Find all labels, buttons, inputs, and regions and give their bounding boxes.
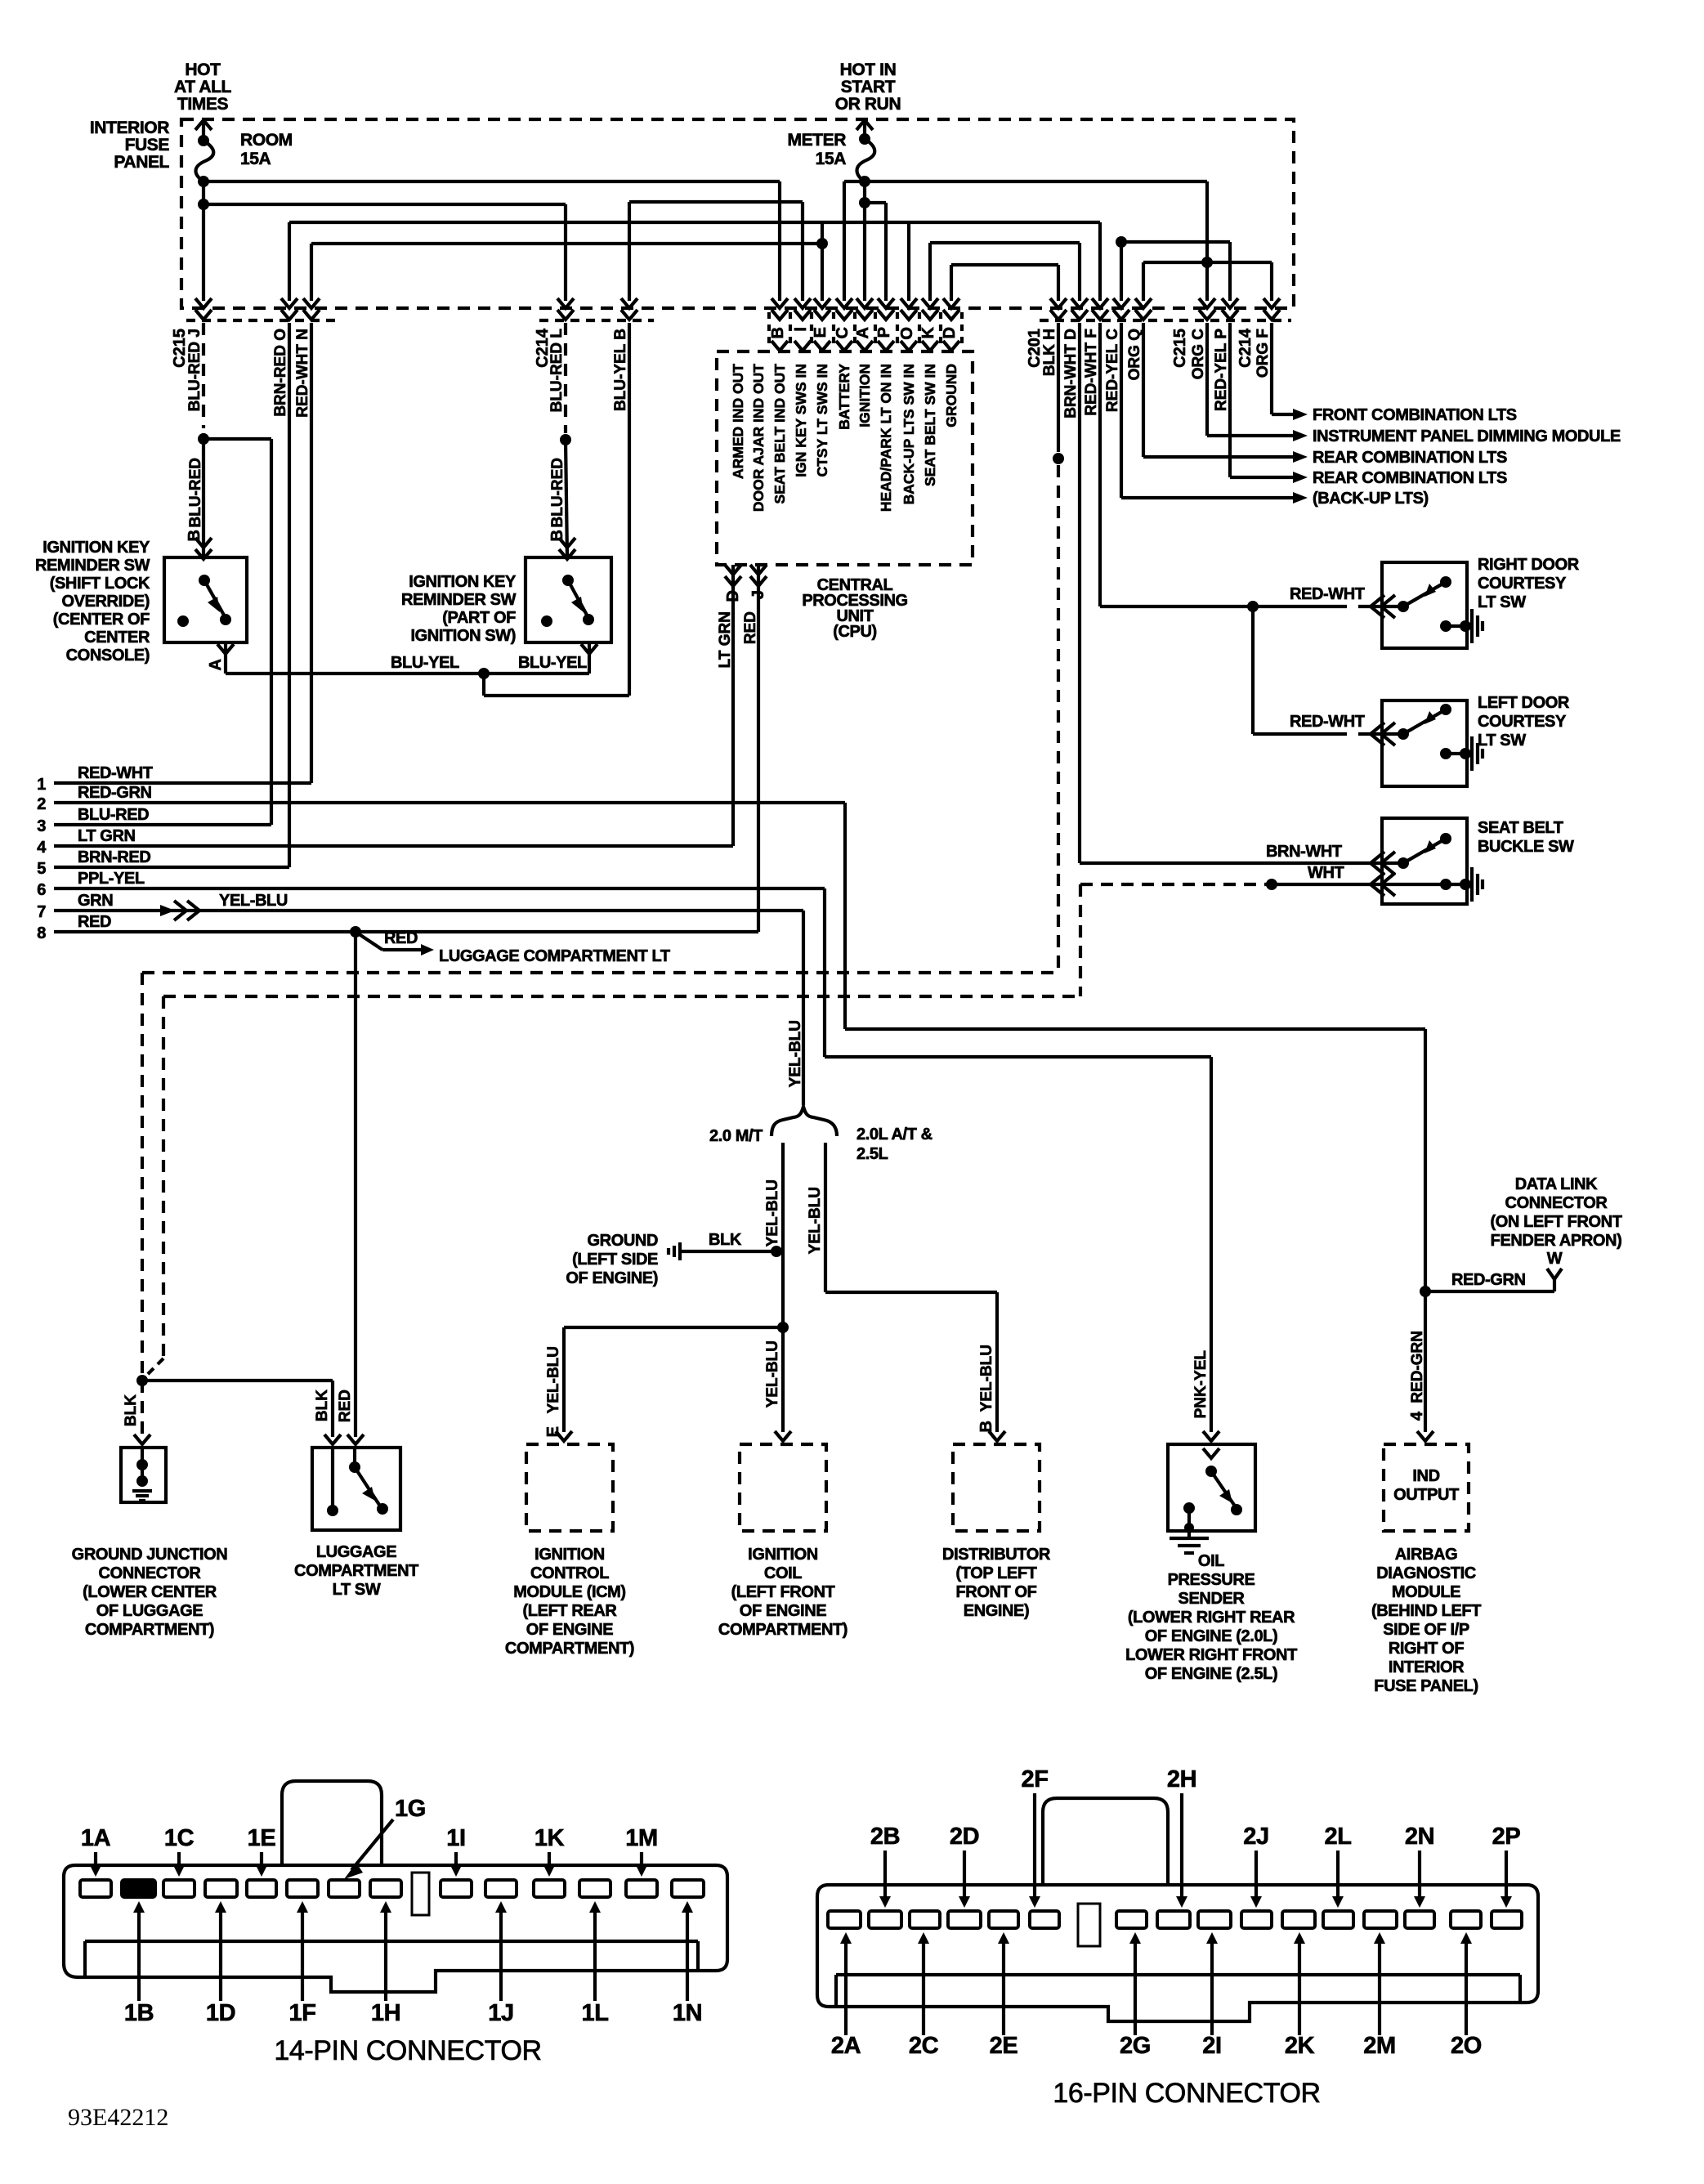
svg-text:BLK: BLK: [314, 1390, 331, 1421]
svg-text:OR RUN: OR RUN: [835, 95, 901, 114]
svg-text:COMPARTMENT): COMPARTMENT): [85, 1621, 214, 1639]
svg-text:2B: 2B: [870, 1824, 900, 1850]
svg-text:IGNITION: IGNITION: [856, 364, 873, 427]
svg-text:MODULE (ICM): MODULE (ICM): [513, 1583, 625, 1601]
svg-text:16-PIN CONNECTOR: 16-PIN CONNECTOR: [1053, 2078, 1320, 2109]
svg-text:OUTPUT: OUTPUT: [1393, 1486, 1459, 1504]
svg-text:SENDER: SENDER: [1178, 1590, 1246, 1608]
svg-text:ENGINE): ENGINE): [964, 1602, 1030, 1620]
svg-text:YEL-BLU: YEL-BLU: [545, 1346, 562, 1413]
svg-text:DATA LINK: DATA LINK: [1515, 1175, 1598, 1193]
svg-text:FRONT COMBINATION LTS: FRONT COMBINATION LTS: [1313, 406, 1517, 424]
svg-text:ORG C: ORG C: [1190, 329, 1207, 380]
svg-text:1D: 1D: [206, 2000, 235, 2026]
svg-text:OIL: OIL: [1198, 1552, 1224, 1570]
svg-text:1K: 1K: [534, 1825, 565, 1851]
svg-text:GROUND JUNCTION: GROUND JUNCTION: [72, 1546, 228, 1564]
svg-text:2.0L A/T &: 2.0L A/T &: [856, 1126, 933, 1143]
svg-text:B: B: [769, 327, 787, 338]
svg-text:COMPARTMENT): COMPARTMENT): [718, 1621, 848, 1639]
svg-text:C: C: [834, 327, 852, 338]
svg-text:COURTESY: COURTESY: [1478, 713, 1567, 731]
svg-text:IGNITION KEY: IGNITION KEY: [42, 539, 150, 557]
svg-text:BRN-RED O: BRN-RED O: [272, 329, 289, 417]
svg-text:YEL-BLU: YEL-BLU: [764, 1340, 781, 1408]
svg-text:INSTRUMENT PANEL DIMMING MODUL: INSTRUMENT PANEL DIMMING MODULE: [1313, 427, 1621, 445]
svg-text:IGN KEY SWS IN: IGN KEY SWS IN: [793, 364, 809, 477]
svg-text:K: K: [919, 326, 937, 338]
svg-text:YEL-BLU: YEL-BLU: [219, 892, 288, 910]
svg-text:WHT: WHT: [1308, 864, 1344, 882]
svg-text:(CENTER OF: (CENTER OF: [53, 611, 150, 629]
svg-text:GROUND: GROUND: [588, 1232, 659, 1250]
svg-text:CONTROL: CONTROL: [530, 1564, 609, 1582]
svg-text:2O: 2O: [1451, 2033, 1482, 2059]
svg-text:ORG F: ORG F: [1255, 329, 1272, 378]
svg-text:RED-WHT: RED-WHT: [1290, 713, 1365, 731]
svg-text:DOOR AJAR IND OUT: DOOR AJAR IND OUT: [750, 364, 767, 512]
svg-text:1F: 1F: [288, 2000, 315, 2026]
svg-text:1A: 1A: [81, 1825, 111, 1851]
svg-text:YEL-BLU: YEL-BLU: [787, 1020, 804, 1087]
svg-text:15A: 15A: [816, 150, 847, 168]
svg-text:15A: 15A: [240, 150, 271, 168]
svg-text:HEAD/PARK LT ON IN: HEAD/PARK LT ON IN: [878, 364, 894, 512]
svg-text:6: 6: [37, 881, 46, 899]
svg-text:BUCKLE SW: BUCKLE SW: [1478, 838, 1574, 856]
svg-text:D: D: [941, 327, 959, 338]
svg-text:BLU-RED: BLU-RED: [549, 458, 566, 528]
svg-text:LEFT DOOR: LEFT DOOR: [1478, 694, 1570, 712]
svg-text:2C: 2C: [909, 2033, 939, 2059]
svg-text:D: D: [724, 590, 742, 602]
svg-text:OF LUGGAGE: OF LUGGAGE: [96, 1602, 203, 1620]
svg-text:RED-WHT: RED-WHT: [78, 764, 153, 782]
svg-text:RED: RED: [384, 929, 418, 947]
svg-text:E: E: [544, 1426, 562, 1437]
svg-text:OF ENGINE (2.0L): OF ENGINE (2.0L): [1145, 1627, 1278, 1645]
svg-text:(LEFT FRONT: (LEFT FRONT: [731, 1583, 835, 1601]
svg-text:YEL-BLU: YEL-BLU: [978, 1345, 995, 1412]
svg-text:YEL-BLU: YEL-BLU: [807, 1187, 824, 1254]
svg-text:A: A: [854, 327, 872, 338]
svg-text:2G: 2G: [1120, 2033, 1151, 2059]
svg-text:COMPARTMENT): COMPARTMENT): [505, 1640, 634, 1658]
svg-text:8: 8: [37, 924, 46, 942]
svg-text:5: 5: [37, 860, 46, 878]
svg-text:(BACK-UP LTS): (BACK-UP LTS): [1313, 490, 1429, 508]
svg-text:(BEHIND LEFT: (BEHIND LEFT: [1371, 1602, 1481, 1620]
svg-text:1L: 1L: [581, 2000, 608, 2026]
svg-text:BRN-RED: BRN-RED: [78, 848, 150, 866]
svg-text:1: 1: [37, 776, 46, 794]
svg-text:RED: RED: [337, 1390, 354, 1422]
svg-text:P: P: [875, 327, 893, 338]
svg-text:1M: 1M: [625, 1825, 658, 1851]
svg-text:REMINDER SW: REMINDER SW: [401, 591, 517, 609]
svg-text:PPL-YEL: PPL-YEL: [78, 870, 145, 888]
svg-text:OF ENGINE): OF ENGINE): [566, 1269, 658, 1287]
svg-text:SEAT BELT IND OUT: SEAT BELT IND OUT: [771, 364, 788, 504]
svg-text:14-PIN CONNECTOR: 14-PIN CONNECTOR: [274, 2035, 541, 2066]
svg-text:RED-WHT F: RED-WHT F: [1083, 329, 1100, 416]
svg-text:1C: 1C: [164, 1825, 195, 1851]
svg-text:LT SW: LT SW: [1478, 593, 1526, 611]
svg-text:2F: 2F: [1021, 1766, 1048, 1792]
svg-text:BLU-RED J: BLU-RED J: [186, 329, 203, 411]
svg-text:RED-YEL C: RED-YEL C: [1104, 329, 1121, 412]
svg-text:2D: 2D: [950, 1824, 979, 1850]
svg-text:LUGGAGE COMPARTMENT LT: LUGGAGE COMPARTMENT LT: [439, 947, 670, 965]
svg-text:OF ENGINE (2.5L): OF ENGINE (2.5L): [1145, 1665, 1278, 1683]
svg-text:BACK-UP LTS SW IN: BACK-UP LTS SW IN: [901, 364, 917, 504]
svg-text:DIAGNOSTIC: DIAGNOSTIC: [1376, 1564, 1476, 1582]
svg-text:C215: C215: [171, 329, 189, 368]
svg-text:1I: 1I: [446, 1825, 465, 1851]
svg-text:PNK-YEL: PNK-YEL: [1192, 1350, 1210, 1419]
svg-text:93E42212: 93E42212: [68, 2104, 168, 2131]
svg-text:1H: 1H: [371, 2000, 400, 2026]
svg-text:COIL: COIL: [764, 1564, 802, 1582]
svg-text:IGNITION KEY: IGNITION KEY: [409, 573, 517, 591]
svg-text:2A: 2A: [831, 2033, 861, 2059]
svg-text:7: 7: [37, 903, 46, 921]
svg-text:FRONT OF: FRONT OF: [955, 1583, 1036, 1601]
svg-text:O: O: [898, 327, 916, 340]
svg-text:RED-GRN: RED-GRN: [1451, 1271, 1526, 1289]
svg-text:BLK H: BLK H: [1041, 329, 1058, 376]
svg-text:BLU-RED: BLU-RED: [187, 458, 204, 528]
svg-text:COMPARTMENT: COMPARTMENT: [294, 1562, 418, 1580]
svg-text:IGNITION SW): IGNITION SW): [410, 627, 516, 645]
svg-text:INTERIOR: INTERIOR: [1389, 1658, 1465, 1676]
svg-text:SIDE OF I/P: SIDE OF I/P: [1383, 1621, 1469, 1639]
svg-text:BLK: BLK: [709, 1231, 742, 1249]
svg-text:IGNITION: IGNITION: [748, 1546, 818, 1564]
svg-text:BRN-WHT D: BRN-WHT D: [1062, 329, 1080, 418]
svg-text:PRESSURE: PRESSURE: [1168, 1571, 1255, 1589]
svg-text:2K: 2K: [1285, 2033, 1315, 2059]
svg-text:J: J: [749, 590, 767, 599]
svg-text:GROUND: GROUND: [943, 364, 959, 427]
svg-text:LUGGAGE: LUGGAGE: [316, 1543, 396, 1561]
svg-text:PANEL: PANEL: [114, 153, 169, 172]
svg-text:2H: 2H: [1167, 1766, 1196, 1792]
svg-text:CTSY LT SWS IN: CTSY LT SWS IN: [814, 364, 830, 477]
svg-text:REAR COMBINATION LTS: REAR COMBINATION LTS: [1313, 449, 1507, 467]
svg-text:COURTESY: COURTESY: [1478, 575, 1567, 593]
svg-text:I: I: [792, 327, 810, 332]
svg-text:CONNECTOR: CONNECTOR: [1505, 1194, 1608, 1212]
svg-text:E: E: [812, 327, 830, 338]
svg-text:AT ALL: AT ALL: [174, 78, 231, 96]
svg-text:1B: 1B: [124, 2000, 154, 2026]
svg-text:RIGHT DOOR: RIGHT DOOR: [1478, 556, 1580, 574]
svg-text:LOWER RIGHT FRONT: LOWER RIGHT FRONT: [1125, 1646, 1297, 1664]
svg-text:RIGHT OF: RIGHT OF: [1389, 1640, 1465, 1658]
svg-text:AIRBAG: AIRBAG: [1395, 1546, 1458, 1564]
svg-text:2P: 2P: [1492, 1824, 1521, 1850]
svg-text:(LEFT REAR: (LEFT REAR: [523, 1602, 618, 1620]
svg-text:OF ENGINE: OF ENGINE: [526, 1621, 613, 1639]
svg-text:HOT IN: HOT IN: [840, 60, 897, 79]
svg-text:C214: C214: [534, 328, 552, 368]
svg-text:RED-GRN: RED-GRN: [78, 784, 152, 802]
svg-text:IGNITION: IGNITION: [534, 1546, 605, 1564]
svg-text:A: A: [207, 659, 225, 670]
svg-text:OF ENGINE: OF ENGINE: [740, 1602, 826, 1620]
svg-text:W: W: [1547, 1250, 1563, 1268]
svg-text:2M: 2M: [1363, 2033, 1396, 2059]
svg-text:DISTRIBUTOR: DISTRIBUTOR: [942, 1546, 1051, 1564]
svg-text:CONNECTOR: CONNECTOR: [99, 1564, 202, 1582]
svg-text:RED-WHT N: RED-WHT N: [294, 329, 311, 418]
svg-text:RED: RED: [78, 913, 111, 931]
svg-text:SEAT BELT: SEAT BELT: [1478, 819, 1563, 837]
svg-text:2J: 2J: [1243, 1824, 1268, 1850]
svg-text:ROOM: ROOM: [240, 131, 293, 150]
svg-text:(SHIFT LOCK: (SHIFT LOCK: [50, 575, 150, 593]
svg-text:IND: IND: [1412, 1467, 1439, 1485]
svg-text:(TOP LEFT: (TOP LEFT: [956, 1564, 1037, 1582]
svg-text:(ON LEFT FRONT: (ON LEFT FRONT: [1490, 1213, 1621, 1231]
svg-text:FUSE PANEL): FUSE PANEL): [1374, 1677, 1478, 1695]
svg-text:GRN: GRN: [78, 892, 113, 910]
svg-text:(LOWER RIGHT REAR: (LOWER RIGHT REAR: [1128, 1609, 1295, 1627]
svg-text:4: 4: [37, 839, 47, 857]
svg-text:BLK: BLK: [123, 1394, 140, 1426]
svg-text:1J: 1J: [488, 2000, 513, 2026]
svg-text:B: B: [977, 1421, 995, 1432]
svg-text:1G: 1G: [395, 1796, 426, 1822]
svg-text:LT GRN: LT GRN: [78, 827, 136, 845]
svg-text:(PART OF: (PART OF: [442, 609, 516, 627]
svg-text:METER: METER: [787, 131, 846, 150]
svg-text:FENDER APRON): FENDER APRON): [1491, 1232, 1622, 1250]
svg-text:MODULE: MODULE: [1392, 1583, 1460, 1601]
svg-text:OVERRIDE): OVERRIDE): [61, 593, 150, 611]
svg-text:2L: 2L: [1324, 1824, 1351, 1850]
svg-text:C201: C201: [1026, 329, 1044, 368]
svg-text:BLU-YEL B: BLU-YEL B: [612, 329, 629, 411]
svg-text:BLU-YEL: BLU-YEL: [391, 654, 459, 672]
svg-text:INTERIOR: INTERIOR: [90, 119, 169, 137]
svg-text:RED-GRN: RED-GRN: [1409, 1331, 1426, 1403]
svg-text:ARMED IND OUT: ARMED IND OUT: [730, 364, 746, 479]
svg-text:RED: RED: [742, 611, 759, 644]
svg-text:LT SW: LT SW: [333, 1581, 381, 1599]
svg-text:B: B: [186, 530, 203, 541]
svg-text:SEAT BELT SW IN: SEAT BELT SW IN: [922, 364, 938, 486]
svg-text:1E: 1E: [248, 1825, 276, 1851]
svg-text:FUSE: FUSE: [125, 136, 170, 154]
svg-text:CONSOLE): CONSOLE): [66, 647, 150, 665]
svg-text:LT SW: LT SW: [1478, 732, 1526, 750]
svg-text:LT GRN: LT GRN: [717, 611, 734, 668]
svg-text:BLU-RED: BLU-RED: [78, 806, 149, 824]
svg-text:2N: 2N: [1405, 1824, 1434, 1850]
svg-text:(CPU): (CPU): [833, 623, 877, 641]
svg-text:REMINDER SW: REMINDER SW: [35, 557, 150, 575]
svg-text:(LEFT SIDE: (LEFT SIDE: [572, 1251, 658, 1269]
svg-text:3: 3: [37, 817, 46, 835]
svg-text:4: 4: [1408, 1411, 1426, 1421]
svg-text:BRN-WHT: BRN-WHT: [1266, 843, 1342, 861]
svg-text:YEL-BLU: YEL-BLU: [764, 1179, 781, 1246]
svg-text:START: START: [841, 78, 896, 96]
svg-text:BLU-YEL: BLU-YEL: [518, 654, 587, 672]
svg-text:C214: C214: [1237, 328, 1255, 368]
svg-text:2: 2: [37, 795, 46, 813]
svg-text:B: B: [548, 530, 566, 541]
svg-text:RED-WHT: RED-WHT: [1290, 585, 1365, 603]
svg-text:CENTER: CENTER: [84, 629, 150, 647]
svg-text:RED-YEL P: RED-YEL P: [1213, 329, 1230, 411]
svg-text:2I: 2I: [1202, 2033, 1221, 2059]
svg-text:(LOWER CENTER: (LOWER CENTER: [83, 1583, 217, 1601]
svg-text:HOT: HOT: [185, 60, 221, 79]
svg-text:REAR COMBINATION LTS: REAR COMBINATION LTS: [1313, 469, 1507, 487]
svg-text:2.5L: 2.5L: [856, 1145, 888, 1163]
svg-text:BATTERY: BATTERY: [836, 364, 852, 430]
svg-text:1N: 1N: [673, 2000, 702, 2026]
svg-text:2.0 M/T: 2.0 M/T: [709, 1127, 763, 1145]
svg-text:2E: 2E: [990, 2033, 1018, 2059]
svg-text:ORG Q: ORG Q: [1126, 329, 1143, 380]
svg-text:C215: C215: [1171, 329, 1189, 368]
svg-text:TIMES: TIMES: [177, 95, 229, 114]
